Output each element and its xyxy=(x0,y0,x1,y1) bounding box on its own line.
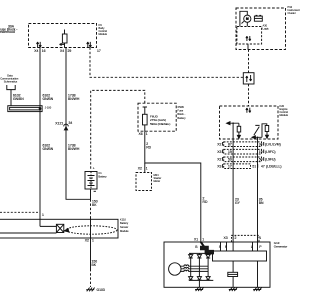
current sensor xyxy=(56,224,63,232)
svg-text:X2: X2 xyxy=(217,157,221,161)
wire label 6102 A xyxy=(43,93,54,101)
wire 24 BN ECM to generator xyxy=(257,139,259,251)
svg-text:BN/WH: BN/WH xyxy=(68,97,80,101)
svg-text:Fuse: Fuse xyxy=(177,109,183,113)
node K9 label xyxy=(99,23,108,36)
svg-text:GY: GY xyxy=(235,201,241,205)
diode D2 col xyxy=(198,253,200,280)
diode D3 col xyxy=(207,253,209,280)
svg-text:X6: X6 xyxy=(139,132,143,136)
svg-text:1: 1 xyxy=(42,213,44,217)
wire lamp loop xyxy=(240,11,247,26)
svg-text:Block -: Block - xyxy=(177,112,185,116)
svg-text:19: 19 xyxy=(259,150,263,154)
pin 1 right xyxy=(259,236,261,240)
diode symbols top xyxy=(189,255,211,258)
wire logic exit xyxy=(247,44,249,50)
svg-text:G103: G103 xyxy=(97,288,105,292)
svg-text:16: 16 xyxy=(42,49,46,53)
op K9 body control module box xyxy=(29,24,97,48)
svg-text:+: + xyxy=(93,167,95,171)
ground generator 2 xyxy=(229,287,237,291)
battery icon xyxy=(254,16,262,21)
pin arrows ECM top xyxy=(246,108,248,113)
svg-text:590A (DIESEL): 590A (DIESEL) xyxy=(150,122,170,126)
pin X2 1 sensor xyxy=(85,239,94,243)
pin arrows X4-29r xyxy=(87,42,89,47)
rectifier bottom bus xyxy=(189,279,213,281)
svg-text:(L9FC): (L9FC) xyxy=(265,150,276,154)
svg-text:(LVL/LVM): (LVL/LVM) xyxy=(265,142,281,146)
terminal stubs xyxy=(221,242,253,251)
wire stub to starter xyxy=(144,163,146,173)
svg-text:X3: X3 xyxy=(217,150,221,154)
node data communication schematics ref xyxy=(0,74,19,84)
svg-text:GN/BN: GN/BN xyxy=(43,97,54,101)
wire dashed ref into sensor xyxy=(0,211,40,213)
driver circuit left xyxy=(227,123,239,139)
wire label 6102 stem xyxy=(13,93,24,101)
svg-text:X1: X1 xyxy=(194,238,198,242)
fuse F1 inside BCM xyxy=(64,30,66,48)
diode symbols bottom xyxy=(189,277,211,280)
svg-text:P: P xyxy=(259,245,262,249)
pin X1 1 xyxy=(194,238,204,242)
svg-text:Generator: Generator xyxy=(274,245,288,249)
capacitor C xyxy=(232,261,234,287)
op K20 engine control module box xyxy=(220,106,279,139)
svg-text:2: 2 xyxy=(235,236,237,240)
svg-text:1: 1 xyxy=(92,239,94,243)
svg-text:C1: C1 xyxy=(98,171,102,175)
wire battery minus down xyxy=(90,189,92,199)
ref bracket xyxy=(7,85,15,93)
pin X4 16 xyxy=(34,49,45,53)
svg-text:Module: Module xyxy=(280,113,289,117)
svg-text:Sensor: Sensor xyxy=(120,225,128,229)
svg-text:X2: X2 xyxy=(138,167,142,171)
wire A 6102 xyxy=(0,48,56,234)
junction J-100 bus xyxy=(8,106,42,112)
svg-text:51: 51 xyxy=(252,165,256,169)
svg-text:Schematics: Schematics xyxy=(4,79,18,83)
pin X2 1 starter xyxy=(138,167,148,171)
svg-text:X3: X3 xyxy=(224,236,228,240)
svg-text:87: 87 xyxy=(228,142,232,146)
node J-100 label xyxy=(45,105,52,109)
wire rect to ground xyxy=(198,280,200,287)
pin X3 2 xyxy=(224,236,237,240)
node M64 starter motor box xyxy=(136,173,152,191)
stator windings xyxy=(181,265,208,266)
wire dashed battery positive xyxy=(91,90,145,169)
node X50B fuse block battery box xyxy=(138,103,176,131)
pin X4 17 xyxy=(97,49,101,53)
svg-text:X2: X2 xyxy=(85,239,89,243)
wire serial data dashed BCM to splice xyxy=(90,48,243,78)
svg-text:Battery: Battery xyxy=(177,116,186,120)
svg-text:K110: K110 xyxy=(120,217,126,221)
svg-text:GN/BN: GN/BN xyxy=(13,97,24,101)
battery minus xyxy=(94,190,96,192)
node P16 instrument cluster box xyxy=(236,8,286,50)
svg-text:RD: RD xyxy=(203,200,208,204)
svg-text:29: 29 xyxy=(68,49,72,53)
bus bar B+ xyxy=(201,242,204,247)
svg-text:50: 50 xyxy=(228,157,232,161)
wire stem to J100 xyxy=(10,93,12,106)
svg-text:Motor: Motor xyxy=(154,179,161,183)
svg-text:1: 1 xyxy=(202,238,204,242)
svg-text:47: 47 xyxy=(261,165,265,169)
ground generator 1 xyxy=(195,287,203,291)
svg-text:17: 17 xyxy=(228,165,232,169)
svg-text:34: 34 xyxy=(259,142,263,146)
pin row X2 87 xyxy=(217,142,280,146)
pin row X2 50 xyxy=(217,157,275,161)
svg-text:34: 34 xyxy=(69,121,73,125)
pin arrows in logic xyxy=(246,36,248,41)
driver circuit right transistor xyxy=(252,124,267,139)
svg-text:BN/WH: BN/WH xyxy=(68,147,80,151)
resistor R1 xyxy=(237,126,241,132)
wire regulator to ground xyxy=(257,261,259,287)
rectifier top bus xyxy=(189,252,213,254)
pin X4 29 xyxy=(60,49,71,53)
wire 2 RD fuse to junction xyxy=(145,131,201,242)
ground generator 3 xyxy=(253,287,261,291)
voltage regulator xyxy=(213,251,267,261)
svg-text:Module: Module xyxy=(120,229,129,233)
diode D1 col xyxy=(190,253,192,280)
svg-text:Battery: Battery xyxy=(98,174,107,178)
svg-text:1: 1 xyxy=(146,167,148,171)
wire arrow left at fuse bottom xyxy=(60,43,65,45)
ground G103 xyxy=(86,288,94,292)
dashed ellipse clamp xyxy=(66,226,117,234)
svg-text:50: 50 xyxy=(259,157,263,161)
svg-text:BK: BK xyxy=(92,203,97,207)
wire dashed splice to ECM xyxy=(248,84,250,106)
node G13 generator box xyxy=(164,242,270,287)
fuse block underhood label xyxy=(0,24,17,34)
node A30 logic box xyxy=(237,27,262,45)
node K110 battery sensor module box xyxy=(0,219,118,238)
resistor R2 xyxy=(265,126,269,132)
lamp charge indicator xyxy=(244,15,251,22)
dashed variant bracket xyxy=(232,235,260,242)
svg-text:X4: X4 xyxy=(60,49,64,53)
svg-text:X2: X2 xyxy=(217,142,221,146)
svg-text:Logic: Logic xyxy=(263,27,270,31)
svg-text:1: 1 xyxy=(259,236,261,240)
svg-text:1: 1 xyxy=(146,132,148,136)
svg-text:(LDB/LLL): (LDB/LLL) xyxy=(266,165,281,169)
wire B 1738 xyxy=(66,48,91,200)
svg-text:Battery: Battery xyxy=(120,221,129,225)
svg-text:19: 19 xyxy=(228,150,232,154)
svg-text:BN: BN xyxy=(259,201,264,205)
svg-text:Cluster: Cluster xyxy=(288,11,296,15)
svg-text:Underhood: Underhood xyxy=(0,30,15,34)
svg-text:X121: X121 xyxy=(55,121,63,125)
wire label 1738 B2 xyxy=(68,143,80,151)
pin X6 1 xyxy=(139,132,148,136)
svg-text:GN/BN: GN/BN xyxy=(43,147,54,151)
wire label 6102 A2 xyxy=(43,143,54,151)
connector X121 pin 34 xyxy=(55,121,72,125)
svg-text:J-100: J-100 xyxy=(45,105,52,109)
wire 23 GY ECM to generator xyxy=(232,139,234,251)
svg-text:B: B xyxy=(195,245,198,249)
wire dashed P16 to splice xyxy=(248,50,250,73)
pin row X3 17 xyxy=(217,165,281,169)
wire 150 BK to ground xyxy=(90,238,92,269)
svg-text:RD: RD xyxy=(146,145,151,149)
generator terminals xyxy=(195,245,262,249)
connector inline splice box xyxy=(243,73,254,84)
wire label 1738 B xyxy=(68,93,80,101)
rotor xyxy=(169,263,181,275)
pin row X3 19 xyxy=(217,150,275,154)
svg-text:BK: BK xyxy=(92,263,97,267)
svg-text:(L9FU): (L9FU) xyxy=(265,157,276,161)
pin arrows X4-16 xyxy=(37,42,39,47)
svg-text:Module: Module xyxy=(99,32,108,36)
wire dashed battery cable into sensor xyxy=(90,199,92,217)
svg-text:17: 17 xyxy=(97,49,101,53)
svg-text:X3: X3 xyxy=(217,165,221,169)
battery C1 xyxy=(85,172,97,190)
svg-text:X50B: X50B xyxy=(177,105,184,109)
fuse F6UD xyxy=(143,107,147,131)
svg-text:X4: X4 xyxy=(34,49,38,53)
